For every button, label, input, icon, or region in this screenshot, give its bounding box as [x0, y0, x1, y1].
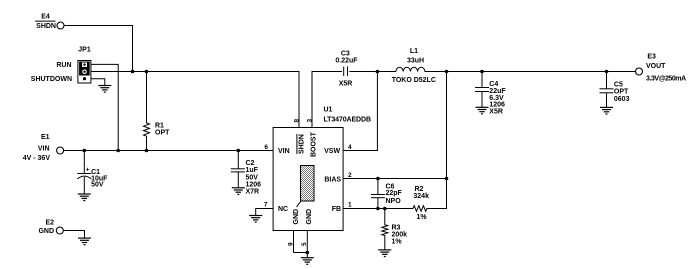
svg-text:VOUT: VOUT [646, 63, 666, 70]
U1 pin 5 wire [306, 231, 308, 253]
U1 pin 4 VSW [324, 144, 352, 155]
wire BIAS [343, 178, 446, 180]
wire E2 to ground [64, 231, 85, 239]
svg-text:OPT: OPT [614, 89, 629, 96]
ground C1 [78, 194, 91, 201]
ground NC [249, 216, 262, 223]
svg-text:33uH: 33uH [407, 58, 424, 65]
svg-text:R3: R3 [392, 225, 401, 232]
capacitor C6 [371, 179, 403, 209]
svg-text:1: 1 [348, 201, 352, 208]
svg-text:5: 5 [301, 242, 308, 246]
U1 pin 8 SHDN [293, 119, 305, 155]
wire C3 to VSW node [349, 71, 377, 73]
wire VSW node to L1 [377, 71, 396, 73]
svg-text:1206: 1206 [246, 182, 262, 189]
svg-text:JP1: JP1 [78, 47, 91, 54]
junction RUN/VIN [116, 149, 120, 153]
junction BIAS feed [445, 70, 449, 74]
wire NC to ground [256, 209, 273, 216]
junction VSW node [376, 70, 380, 74]
svg-text:22pF: 22pF [386, 190, 403, 197]
capacitor C4 [475, 72, 506, 116]
svg-text:4V - 36V: 4V - 36V [23, 155, 51, 162]
U1 pin 3 BOOST [306, 119, 317, 158]
svg-text:U1: U1 [324, 107, 333, 114]
terminal E1 (VIN input) [23, 134, 64, 162]
junction C6 bottom [376, 207, 380, 211]
U1 reference label [324, 107, 371, 124]
ground C2 [232, 188, 245, 195]
capacitor C2 [231, 151, 261, 196]
wire JP1 pin2 SHDN rail to U1 pin 8 [91, 72, 299, 128]
junction BIAS/vertical [445, 177, 449, 181]
svg-text:X5R: X5R [339, 81, 353, 88]
junction E4/SHDN rail [131, 70, 135, 74]
svg-text:50V: 50V [91, 182, 104, 189]
ground JP1 [98, 86, 111, 93]
svg-text:E1: E1 [41, 134, 50, 141]
U1 pin 1 FB [332, 201, 352, 213]
capacitor C1 [77, 151, 108, 195]
svg-text:OPT: OPT [155, 130, 170, 137]
svg-text:GND: GND [293, 209, 300, 225]
wire FB [343, 208, 413, 210]
wire L1 to VOUT rail [425, 71, 635, 73]
wire E4 to SHDN rail [64, 26, 132, 72]
ground C5 [600, 107, 613, 114]
svg-text:FB: FB [332, 206, 341, 213]
svg-text:NPO: NPO [386, 198, 402, 205]
connector JP1 [31, 47, 91, 84]
U1 pin 9 wire [293, 231, 295, 253]
thermal pad U1 [297, 166, 315, 208]
svg-text:R1: R1 [155, 123, 164, 130]
svg-text:X7R: X7R [246, 189, 260, 196]
svg-text:1%: 1% [417, 214, 428, 221]
svg-text:1%: 1% [392, 239, 403, 246]
ground E2 [78, 238, 91, 245]
svg-text:SHUTDOWN: SHUTDOWN [31, 76, 72, 83]
svg-text:324k: 324k [413, 193, 429, 200]
ground C4 [476, 107, 489, 114]
svg-text:7: 7 [264, 201, 268, 208]
resistor R2 [413, 186, 447, 221]
svg-text:GND: GND [306, 209, 313, 225]
U1 pin 7 NC [264, 201, 288, 213]
svg-text:BOOST: BOOST [311, 131, 318, 157]
junction C5 [605, 70, 609, 74]
U1 GND pin labels [293, 209, 313, 225]
svg-text:SHDN: SHDN [36, 23, 56, 30]
svg-text:RUN: RUN [56, 62, 71, 69]
svg-text:SHDN: SHDN [299, 134, 306, 154]
svg-text:0.22uF: 0.22uF [335, 58, 358, 65]
svg-text:200k: 200k [392, 232, 408, 239]
svg-text:E4: E4 [41, 14, 50, 21]
svg-text:3.3V@250mA: 3.3V@250mA [646, 75, 686, 82]
svg-text:8: 8 [293, 119, 300, 123]
capacitor C5 [600, 72, 630, 108]
svg-text:1uF: 1uF [246, 167, 259, 174]
U1 pin 6 VIN [264, 144, 289, 155]
svg-text:BIAS: BIAS [324, 176, 341, 183]
svg-text:+: + [86, 167, 90, 174]
svg-text:LT3470AEDDB: LT3470AEDDB [324, 117, 371, 124]
junction C2/VIN [237, 149, 241, 153]
svg-text:2: 2 [348, 172, 352, 179]
terminal E4 (SHDN input) [35, 14, 64, 30]
wire BOOST to C3 [312, 72, 342, 128]
wire VOUT to feedback divider [446, 72, 448, 210]
junction C6 top [376, 177, 380, 181]
svg-text:VIN: VIN [278, 148, 290, 155]
svg-text:C3: C3 [341, 51, 350, 58]
svg-text:4: 4 [348, 144, 352, 151]
junction R1 bottom [145, 149, 149, 153]
junction C1/VIN [83, 149, 87, 153]
svg-text:E2: E2 [45, 220, 54, 227]
ground R3 [378, 250, 391, 257]
svg-text:VSW: VSW [324, 148, 340, 155]
svg-text:C2: C2 [246, 160, 255, 167]
terminal E2 (GND) [38, 220, 63, 235]
svg-text:VIN: VIN [38, 146, 50, 153]
svg-text:9: 9 [287, 242, 294, 246]
inductor L1 [392, 48, 436, 84]
svg-text:0603: 0603 [614, 96, 630, 103]
svg-text:C5: C5 [614, 82, 623, 89]
junction C4 [480, 70, 484, 74]
svg-text:GND: GND [38, 228, 54, 235]
resistor R3 [382, 209, 407, 250]
IC U1 body [273, 128, 343, 231]
ground U1 [301, 258, 314, 265]
wire JP1 pin3 to ground [91, 79, 105, 86]
capacitor C3 [335, 51, 358, 88]
U1 pin 2 BIAS [324, 172, 352, 184]
svg-text:50V: 50V [246, 174, 259, 181]
svg-text:L1: L1 [410, 48, 418, 55]
junction GND pins [306, 251, 310, 255]
svg-text:6: 6 [264, 144, 268, 151]
wire GND pins bus [294, 252, 308, 254]
junction R1 top [145, 70, 149, 74]
resistor R1 [144, 72, 171, 151]
svg-text:TOKO D52LC: TOKO D52LC [392, 77, 436, 84]
svg-text:X5R: X5R [489, 109, 503, 116]
svg-text:E3: E3 [647, 54, 656, 61]
junction R3 [383, 207, 387, 211]
terminal E3 (VOUT) [636, 54, 687, 83]
svg-text:NC: NC [278, 206, 288, 213]
wire JP1 pin1 RUN to VIN line [91, 64, 118, 150]
wire VSW to node [343, 72, 377, 151]
wire VIN line to U1 pin 6 [64, 150, 273, 152]
